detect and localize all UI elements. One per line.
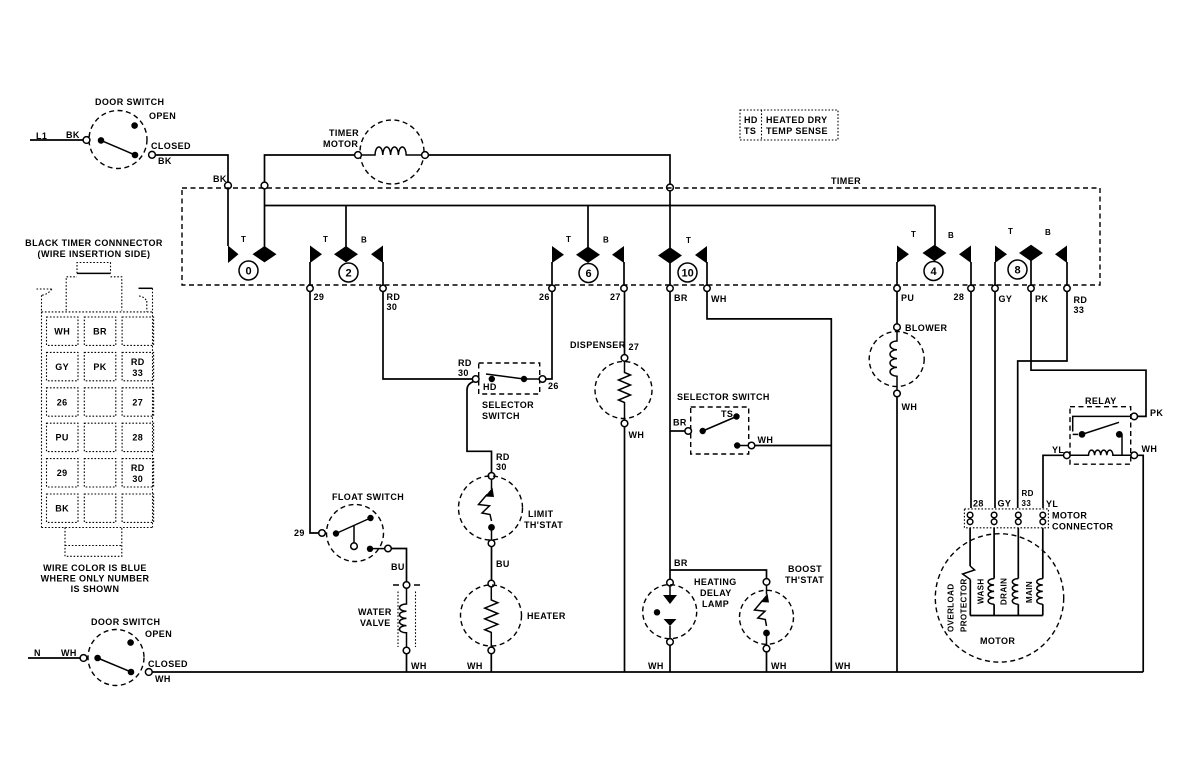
wire RD 33 from timer to motor connector xyxy=(1018,292,1067,509)
winding WASH xyxy=(993,528,995,579)
wire RD 30 from timer to selector switch xyxy=(383,292,472,380)
svg-text:GY: GY xyxy=(999,294,1013,304)
svg-text:OPEN: OPEN xyxy=(145,629,172,639)
svg-text:WH: WH xyxy=(155,674,171,684)
overload protector xyxy=(969,528,971,566)
svg-text:BOOST: BOOST xyxy=(788,564,822,574)
water valve coil V1 xyxy=(403,582,410,589)
svg-text:WHERE ONLY NUMBER: WHERE ONLY NUMBER xyxy=(41,574,150,584)
svg-text:BR: BR xyxy=(673,418,687,428)
winding MAIN xyxy=(1042,528,1044,579)
svg-text:RD: RD xyxy=(496,452,510,462)
wire PU from timer to blower xyxy=(896,292,898,324)
node 26 xyxy=(549,285,555,291)
connector cell labels xyxy=(54,327,144,514)
svg-text:WH: WH xyxy=(711,294,727,304)
node 28 xyxy=(968,285,974,291)
svg-text:FLOAT SWITCH: FLOAT SWITCH xyxy=(332,492,404,502)
svg-text:RELAY: RELAY xyxy=(1085,396,1117,406)
svg-text:WH: WH xyxy=(1142,444,1158,454)
node GY xyxy=(992,285,998,291)
svg-text:10: 10 xyxy=(682,268,694,280)
svg-text:BR: BR xyxy=(93,327,107,337)
cam switch 2 xyxy=(345,206,347,247)
svg-text:26: 26 xyxy=(548,381,559,391)
svg-text:WH: WH xyxy=(411,661,427,671)
wire 29 to float switch xyxy=(310,292,319,534)
timer common rail xyxy=(265,205,936,207)
node BR xyxy=(667,285,673,291)
svg-text:HEATER: HEATER xyxy=(527,611,566,621)
svg-text:TIMER: TIMER xyxy=(329,128,359,138)
svg-text:PU: PU xyxy=(56,433,69,443)
blower motor B1 xyxy=(894,324,901,331)
svg-text:CONNECTOR: CONNECTOR xyxy=(1052,522,1114,532)
svg-text:RD: RD xyxy=(1022,489,1034,498)
svg-text:MOTOR: MOTOR xyxy=(980,636,1015,646)
wire 27 from timer to dispenser xyxy=(624,292,626,355)
svg-text:HEATED DRY: HEATED DRY xyxy=(766,115,828,125)
svg-text:2: 2 xyxy=(346,268,352,280)
svg-text:VALVE: VALVE xyxy=(360,618,391,628)
svg-text:WIRE COLOR IS BLUE: WIRE COLOR IS BLUE xyxy=(43,563,147,573)
svg-text:HEATING: HEATING xyxy=(694,577,737,587)
svg-text:28: 28 xyxy=(954,292,965,302)
cam switch 4 xyxy=(934,206,936,246)
svg-text:BLOWER: BLOWER xyxy=(905,323,947,333)
svg-text:RD: RD xyxy=(131,463,145,473)
node 29 xyxy=(307,285,313,291)
node PK xyxy=(1028,285,1034,291)
svg-text:WH: WH xyxy=(758,435,774,445)
svg-text:HD: HD xyxy=(483,382,497,392)
svg-text:BK: BK xyxy=(158,156,172,166)
svg-text:IS SHOWN: IS SHOWN xyxy=(71,584,120,594)
svg-text:TEMP SENSE: TEMP SENSE xyxy=(766,126,828,136)
svg-text:SELECTOR: SELECTOR xyxy=(482,400,534,410)
node RD 33 xyxy=(1064,285,1070,291)
svg-text:33: 33 xyxy=(1022,499,1032,508)
wire BU float switch to water valve xyxy=(391,549,406,582)
wire BU limit th'stat to heater xyxy=(491,547,493,581)
svg-text:WH: WH xyxy=(629,430,645,440)
svg-text:BU: BU xyxy=(496,559,510,569)
svg-text:DRAIN: DRAIN xyxy=(1000,578,1009,605)
wire WH boost th'stat to rail xyxy=(766,652,768,672)
svg-text:WH: WH xyxy=(467,661,483,671)
wire WH blower to rail xyxy=(896,397,898,672)
svg-text:27: 27 xyxy=(629,342,640,352)
node PU xyxy=(894,285,900,291)
svg-text:BU: BU xyxy=(391,562,405,572)
svg-text:28: 28 xyxy=(132,433,143,443)
svg-text:8: 8 xyxy=(1015,265,1021,277)
svg-text:T: T xyxy=(566,235,571,244)
wire WH bottom rail xyxy=(152,671,1143,673)
svg-text:WH: WH xyxy=(54,327,70,337)
connector right ear xyxy=(139,287,153,289)
wire BK from DS1 closed to timer xyxy=(155,155,228,182)
svg-text:33: 33 xyxy=(132,368,143,378)
cam switch 0 xyxy=(228,246,239,264)
wire timer motor to cam 10 xyxy=(428,155,670,184)
connector body outline xyxy=(42,312,153,528)
svg-text:T: T xyxy=(241,235,246,244)
coil timer motor xyxy=(361,147,421,155)
connector bottom tab xyxy=(65,528,122,557)
svg-text:YL: YL xyxy=(1052,445,1064,455)
svg-text:BR: BR xyxy=(674,293,688,303)
svg-text:WH: WH xyxy=(61,648,77,658)
cam switch 8 xyxy=(995,246,1007,264)
wire BR branch to boost th'stat xyxy=(670,570,767,579)
svg-text:LIMIT: LIMIT xyxy=(528,509,554,519)
svg-text:26: 26 xyxy=(539,292,550,302)
svg-text:27: 27 xyxy=(132,397,143,407)
legend box xyxy=(740,110,838,140)
node WH xyxy=(704,285,710,291)
motor M2 xyxy=(935,534,1063,662)
svg-text:RD: RD xyxy=(131,357,145,367)
wire YL relay to motor connector xyxy=(1043,455,1064,508)
svg-text:T: T xyxy=(323,235,328,244)
svg-text:MOTOR: MOTOR xyxy=(323,139,358,149)
svg-text:BK: BK xyxy=(66,130,80,140)
svg-text:BLACK TIMER CONNNECTOR: BLACK TIMER CONNNECTOR xyxy=(25,238,163,248)
svg-text:27: 27 xyxy=(610,292,621,302)
svg-text:T: T xyxy=(911,230,916,239)
svg-text:TIMER: TIMER xyxy=(831,176,861,186)
wire WH selector to vertical bus xyxy=(755,445,832,447)
svg-text:B: B xyxy=(948,231,954,240)
svg-text:WH: WH xyxy=(648,661,664,671)
wire WH water valve to rail xyxy=(406,654,408,672)
svg-text:TS: TS xyxy=(744,126,756,136)
wire from timer edge up to timer motor line xyxy=(261,182,268,189)
svg-text:30: 30 xyxy=(458,368,469,378)
svg-text:28: 28 xyxy=(973,499,984,509)
svg-text:WH: WH xyxy=(902,402,918,412)
svg-text:PK: PK xyxy=(93,362,106,372)
wire BR from timer down xyxy=(669,292,671,583)
wire WH heater to rail xyxy=(490,654,492,672)
svg-text:DOOR SWITCH: DOOR SWITCH xyxy=(91,617,160,627)
svg-text:DELAY: DELAY xyxy=(700,588,732,598)
wire WH from timer to vertical bus xyxy=(707,292,831,673)
svg-text:OVERLOAD: OVERLOAD xyxy=(947,583,956,632)
svg-text:RD: RD xyxy=(458,358,472,368)
connector left ear xyxy=(37,289,52,312)
winding DRAIN xyxy=(1017,528,1019,579)
svg-text:PROTECTOR: PROTECTOR xyxy=(960,578,969,632)
svg-text:(WIRE INSERTION SIDE): (WIRE INSERTION SIDE) xyxy=(38,249,151,259)
svg-text:29: 29 xyxy=(57,468,68,478)
svg-text:29: 29 xyxy=(294,528,305,538)
wire WH lamp to rail xyxy=(669,645,671,672)
svg-text:SELECTOR SWITCH: SELECTOR SWITCH xyxy=(677,392,770,402)
svg-text:MAIN: MAIN xyxy=(1025,581,1034,603)
svg-text:30: 30 xyxy=(496,462,507,472)
svg-text:LAMP: LAMP xyxy=(702,599,729,609)
svg-text:SWITCH: SWITCH xyxy=(482,411,520,421)
svg-text:BK: BK xyxy=(55,504,69,514)
svg-text:MOTOR: MOTOR xyxy=(1052,511,1087,521)
cam switch 6 xyxy=(587,206,589,248)
svg-text:B: B xyxy=(1045,228,1051,237)
svg-text:N: N xyxy=(34,648,41,658)
cam switch 10 xyxy=(669,191,671,248)
svg-text:29: 29 xyxy=(314,292,325,302)
wire WH dispenser to rail xyxy=(624,427,626,672)
svg-text:PK: PK xyxy=(1150,408,1163,418)
svg-text:6: 6 xyxy=(586,268,592,280)
wire cam0 xyxy=(264,189,266,247)
wire RD 30 from selector to limit th'stat xyxy=(467,382,492,473)
svg-text:B: B xyxy=(361,236,367,245)
wire WH relay to bottom rail xyxy=(1138,455,1144,672)
wire PK from timer to relay xyxy=(1031,292,1146,417)
relay coil xyxy=(1064,452,1071,459)
svg-text:PU: PU xyxy=(901,293,914,303)
node 27 xyxy=(621,285,627,291)
motor common bus xyxy=(970,615,1043,617)
svg-text:T: T xyxy=(1008,227,1013,236)
svg-text:WATER: WATER xyxy=(358,607,392,617)
svg-text:DOOR SWITCH: DOOR SWITCH xyxy=(95,97,164,107)
svg-text:RD: RD xyxy=(1074,295,1088,305)
heating delay lamp DS3 xyxy=(667,579,674,586)
svg-text:4: 4 xyxy=(931,266,938,278)
svg-text:HD: HD xyxy=(744,115,758,125)
svg-text:33: 33 xyxy=(1074,305,1085,315)
connector top tab xyxy=(77,263,111,274)
svg-text:DISPENSER: DISPENSER xyxy=(570,340,626,350)
svg-text:WH: WH xyxy=(771,661,787,671)
svg-text:CLOSED: CLOSED xyxy=(148,659,188,669)
svg-text:OPEN: OPEN xyxy=(149,111,176,121)
svg-text:BK: BK xyxy=(213,174,227,184)
node BK at timer edge xyxy=(225,182,232,189)
boost thermostat TH2 xyxy=(763,579,770,586)
svg-text:PK: PK xyxy=(1035,294,1048,304)
svg-text:CLOSED: CLOSED xyxy=(151,141,191,151)
svg-text:30: 30 xyxy=(387,302,398,312)
svg-text:WH: WH xyxy=(835,661,851,671)
connector cells xyxy=(47,317,154,522)
svg-text:TH'STAT: TH'STAT xyxy=(785,575,824,585)
svg-text:BR: BR xyxy=(674,558,688,568)
svg-text:T: T xyxy=(686,236,691,245)
svg-text:0: 0 xyxy=(246,266,252,278)
heater R1 xyxy=(488,580,495,587)
svg-text:TS: TS xyxy=(721,409,733,419)
wire 26 from timer to selector switch xyxy=(546,292,552,380)
svg-text:GY: GY xyxy=(55,362,69,372)
svg-text:TH'STAT: TH'STAT xyxy=(524,520,563,530)
motor connector xyxy=(964,509,1048,528)
node RD 30 xyxy=(380,285,386,291)
svg-text:YL: YL xyxy=(1046,499,1058,509)
svg-text:RD: RD xyxy=(387,292,401,302)
svg-text:30: 30 xyxy=(132,474,143,484)
svg-text:GY: GY xyxy=(998,499,1012,509)
limit thermostat TH1 xyxy=(488,473,495,480)
wire 28 from timer to motor connector xyxy=(970,292,972,509)
svg-text:26: 26 xyxy=(57,397,68,407)
wire GY from timer to motor connector xyxy=(994,292,996,509)
svg-text:WASH: WASH xyxy=(977,578,986,604)
svg-text:B: B xyxy=(603,236,609,245)
